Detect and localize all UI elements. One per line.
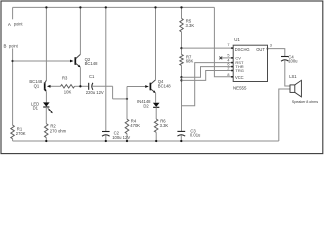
svg-text:LS1: LS1 xyxy=(289,74,297,79)
node B (probe point B) xyxy=(4,43,19,48)
junction dot DSCHG node xyxy=(180,47,182,49)
svg-text:220u 12V: 220u 12V xyxy=(86,90,104,95)
wire LED to R2 xyxy=(45,107,47,124)
transistor Q1 emitter arrowhead xyxy=(44,89,47,92)
svg-text:0.01u: 0.01u xyxy=(190,133,201,138)
label C2 100u 12V xyxy=(112,131,130,140)
node A (probe point A) xyxy=(8,22,24,27)
transistor Q2 emitter diagonal xyxy=(76,63,80,67)
wire Q1 emitter down to LED xyxy=(45,92,47,103)
resistor R7 zigzag xyxy=(180,55,183,66)
LED D1 triangle xyxy=(43,102,50,106)
junction dot bottom R6 xyxy=(155,140,157,142)
resistor R1 zigzag xyxy=(11,125,15,139)
wire top +V rail xyxy=(13,6,215,8)
label C1 220u 12V xyxy=(86,74,104,95)
svg-text:BC148: BC148 xyxy=(158,83,171,88)
capacitor C4 top plate xyxy=(281,56,289,58)
svg-text:3.3K: 3.3K xyxy=(160,123,169,128)
wire R4 bottom lead xyxy=(126,134,128,141)
label R5 3.3K xyxy=(186,19,195,28)
label R2 270 ohm xyxy=(50,124,67,134)
capacitor C4 bottom curved plate xyxy=(281,60,289,61)
junction dot THR node xyxy=(180,76,182,78)
border frame xyxy=(1,1,323,154)
svg-text:Speaker 8 ohms: Speaker 8 ohms xyxy=(292,100,318,104)
label LED D1 xyxy=(31,101,39,110)
no-connect X on CV pin xyxy=(219,57,222,60)
svg-text:B: B xyxy=(4,43,7,48)
svg-text:VCC: VCC xyxy=(235,75,244,80)
diode D2 IN4148 triangle xyxy=(153,103,160,107)
resistor R3 zigzag xyxy=(61,85,75,88)
pin tick 6 THR xyxy=(231,66,233,68)
svg-text:OUT: OUT xyxy=(256,47,265,52)
transistor Q1 emitter diagonal xyxy=(44,89,46,92)
wire OUT pin 3 to C4 xyxy=(268,49,285,57)
label R7 68K xyxy=(186,54,194,63)
resistor R2 zigzag xyxy=(45,124,49,138)
wire THR pin 6 routing xyxy=(182,67,234,78)
svg-text:D1: D1 xyxy=(33,105,39,110)
junction dot bottom R2 xyxy=(45,140,47,142)
resistor R4 zigzag xyxy=(125,119,129,134)
pin tick 4 RST xyxy=(231,62,233,64)
wire jog right to R4 node xyxy=(113,98,127,100)
capacitor C1 right curved plate xyxy=(92,83,93,90)
wire left rail upper segment to probe A xyxy=(12,7,14,19)
transistor Q4 base arrowhead xyxy=(145,85,149,88)
wire RST pin 4 routing xyxy=(181,63,233,106)
svg-text:Q1: Q1 xyxy=(34,83,40,88)
label C4 100u xyxy=(288,54,298,63)
wire rail to R5 xyxy=(181,7,183,18)
timer U1 NE555 box xyxy=(233,45,267,81)
transistor Q4 body bar xyxy=(149,83,151,91)
svg-text:8: 8 xyxy=(227,73,229,77)
transistor Q2 body bar xyxy=(74,57,76,65)
transistor Q4 collector diagonal xyxy=(151,80,156,84)
svg-text:100u 12V: 100u 12V xyxy=(112,135,130,140)
wire C1 right toward Q4 node xyxy=(93,85,113,87)
wire C3 bottom lead xyxy=(180,135,182,141)
svg-text:A: A xyxy=(8,22,11,27)
wire Q2 collector up to rail xyxy=(79,7,81,54)
label R3 10K xyxy=(62,75,71,94)
svg-text:point: point xyxy=(14,22,24,27)
svg-text:BC148: BC148 xyxy=(85,61,98,66)
capacitor C2 top plate xyxy=(102,131,110,133)
svg-text:10K: 10K xyxy=(64,90,72,95)
svg-text:D2: D2 xyxy=(143,103,149,108)
svg-text:5: 5 xyxy=(227,53,229,57)
speaker LS1 horn xyxy=(295,80,302,97)
junction dot rail x46 xyxy=(45,6,47,8)
svg-text:7: 7 xyxy=(227,43,229,47)
junction dot R4 top node xyxy=(126,98,128,100)
svg-text:R3: R3 xyxy=(62,75,68,80)
wire Q4 emitter down to diode xyxy=(155,93,157,103)
junction dot rail x181 xyxy=(180,6,182,8)
wire C2 bottom lead xyxy=(105,135,107,141)
capacitor C1 left plate xyxy=(88,83,90,90)
svg-text:3.3K: 3.3K xyxy=(186,23,195,28)
wire R7 bottom to C3 xyxy=(181,65,183,131)
wire B to Q2 base xyxy=(13,60,70,62)
junction dot Q2 emitter on R3-C1 wire xyxy=(79,85,81,87)
transistor Q2 base arrowhead xyxy=(70,60,74,63)
label C3 0.01u xyxy=(190,128,201,137)
label R6 3.3K xyxy=(160,119,169,128)
wire Q2 emitter down xyxy=(79,67,81,86)
transistor Q4 emitter arrowhead xyxy=(153,90,156,93)
wire R1 bottom lead xyxy=(12,139,14,141)
wire C4 to speaker top terminal xyxy=(285,60,290,86)
wire node down to R4 xyxy=(126,99,128,119)
svg-text:DSCHG: DSCHG xyxy=(235,47,250,52)
wire C1 jog down xyxy=(112,86,114,99)
resistor R5 zigzag xyxy=(180,18,183,32)
svg-text:TRG: TRG xyxy=(235,68,243,73)
wire to Q4 base xyxy=(127,86,145,88)
svg-text:NE555: NE555 xyxy=(233,86,247,91)
svg-text:2: 2 xyxy=(227,66,229,70)
wire left rail lower segment from probe B xyxy=(12,48,14,125)
pin tick 8 VCC xyxy=(231,76,233,78)
capacitor C3 bottom curved plate xyxy=(177,135,185,136)
label R1 270K xyxy=(16,127,26,137)
transistor Q1 collector diagonal xyxy=(44,80,46,84)
wire diode to R6 xyxy=(155,107,157,119)
transistor Q2 collector diagonal xyxy=(76,54,81,58)
svg-text:C1: C1 xyxy=(89,74,95,79)
LED D1 emission arrows xyxy=(48,108,53,113)
wire Q1 base to R3 xyxy=(51,85,61,87)
junction dot bottom C2 xyxy=(105,140,107,142)
svg-text:point: point xyxy=(9,43,19,48)
pin tick 2 TRG xyxy=(231,70,233,72)
svg-text:68K: 68K xyxy=(186,59,194,64)
junction dot rail x80 xyxy=(79,6,81,8)
label Q1 BC148 xyxy=(29,79,42,88)
transistor Q1 base arrowhead xyxy=(47,85,51,88)
speaker LS1 body xyxy=(290,85,295,93)
wire Q1 collector up to rail xyxy=(45,7,47,80)
wire VCC dropper from rail to pin 8 xyxy=(214,7,233,76)
junction dot rail x106 xyxy=(105,6,107,8)
pin tick 3 OUT xyxy=(267,48,269,50)
wire TRG pin 2 routing xyxy=(182,71,234,81)
diode D2 cathode bar xyxy=(153,106,159,108)
svg-text:270K: 270K xyxy=(16,131,26,136)
capacitor C3 top plate xyxy=(177,130,185,132)
wire bottom rail xyxy=(13,140,279,142)
wire DSCHG pin 7 xyxy=(182,47,234,49)
wire R6 bottom lead xyxy=(155,132,157,141)
svg-text:100u: 100u xyxy=(288,59,298,64)
svg-text:270 ohm: 270 ohm xyxy=(50,128,67,133)
svg-text:U1: U1 xyxy=(234,37,240,42)
capacitor C2 bottom curved plate xyxy=(102,135,110,136)
wire C2 dropper from rail xyxy=(105,7,107,131)
pin tick 7 DSCHG xyxy=(231,47,233,49)
wire Q4 collector up to rail xyxy=(155,7,157,80)
junction dot bottom R4 xyxy=(126,140,128,142)
transistor Q2 emitter arrowhead xyxy=(78,65,81,68)
wire speaker bottom terminal to bottom rail xyxy=(279,89,290,141)
junction dot bottom C3 xyxy=(180,140,182,142)
wire node up to Q4 base level xyxy=(126,87,128,99)
transistor Q1 body bar xyxy=(44,82,46,90)
pin tick 5 CV xyxy=(231,57,233,59)
label Q2 BC148 xyxy=(85,57,98,66)
junction dot B-rail to Q2 base xyxy=(11,60,13,62)
label Q4 BC148 xyxy=(158,79,171,88)
junction dot TRG node xyxy=(180,79,182,81)
wire CV pin 5 stub xyxy=(222,57,233,59)
wire R5 to R7 node xyxy=(181,32,183,55)
transistor Q4 emitter diagonal xyxy=(151,89,155,93)
label IN4148 D2 xyxy=(137,99,151,108)
wire R2 bottom lead xyxy=(45,138,47,141)
svg-text:3: 3 xyxy=(270,44,272,48)
LED D1 cathode bar xyxy=(43,106,49,108)
resistor R6 zigzag xyxy=(154,119,158,132)
svg-text:470K: 470K xyxy=(130,123,140,128)
label R4 470K xyxy=(130,119,140,128)
junction dot rail x155 xyxy=(154,6,156,8)
wire R3 to C1 xyxy=(75,85,89,87)
